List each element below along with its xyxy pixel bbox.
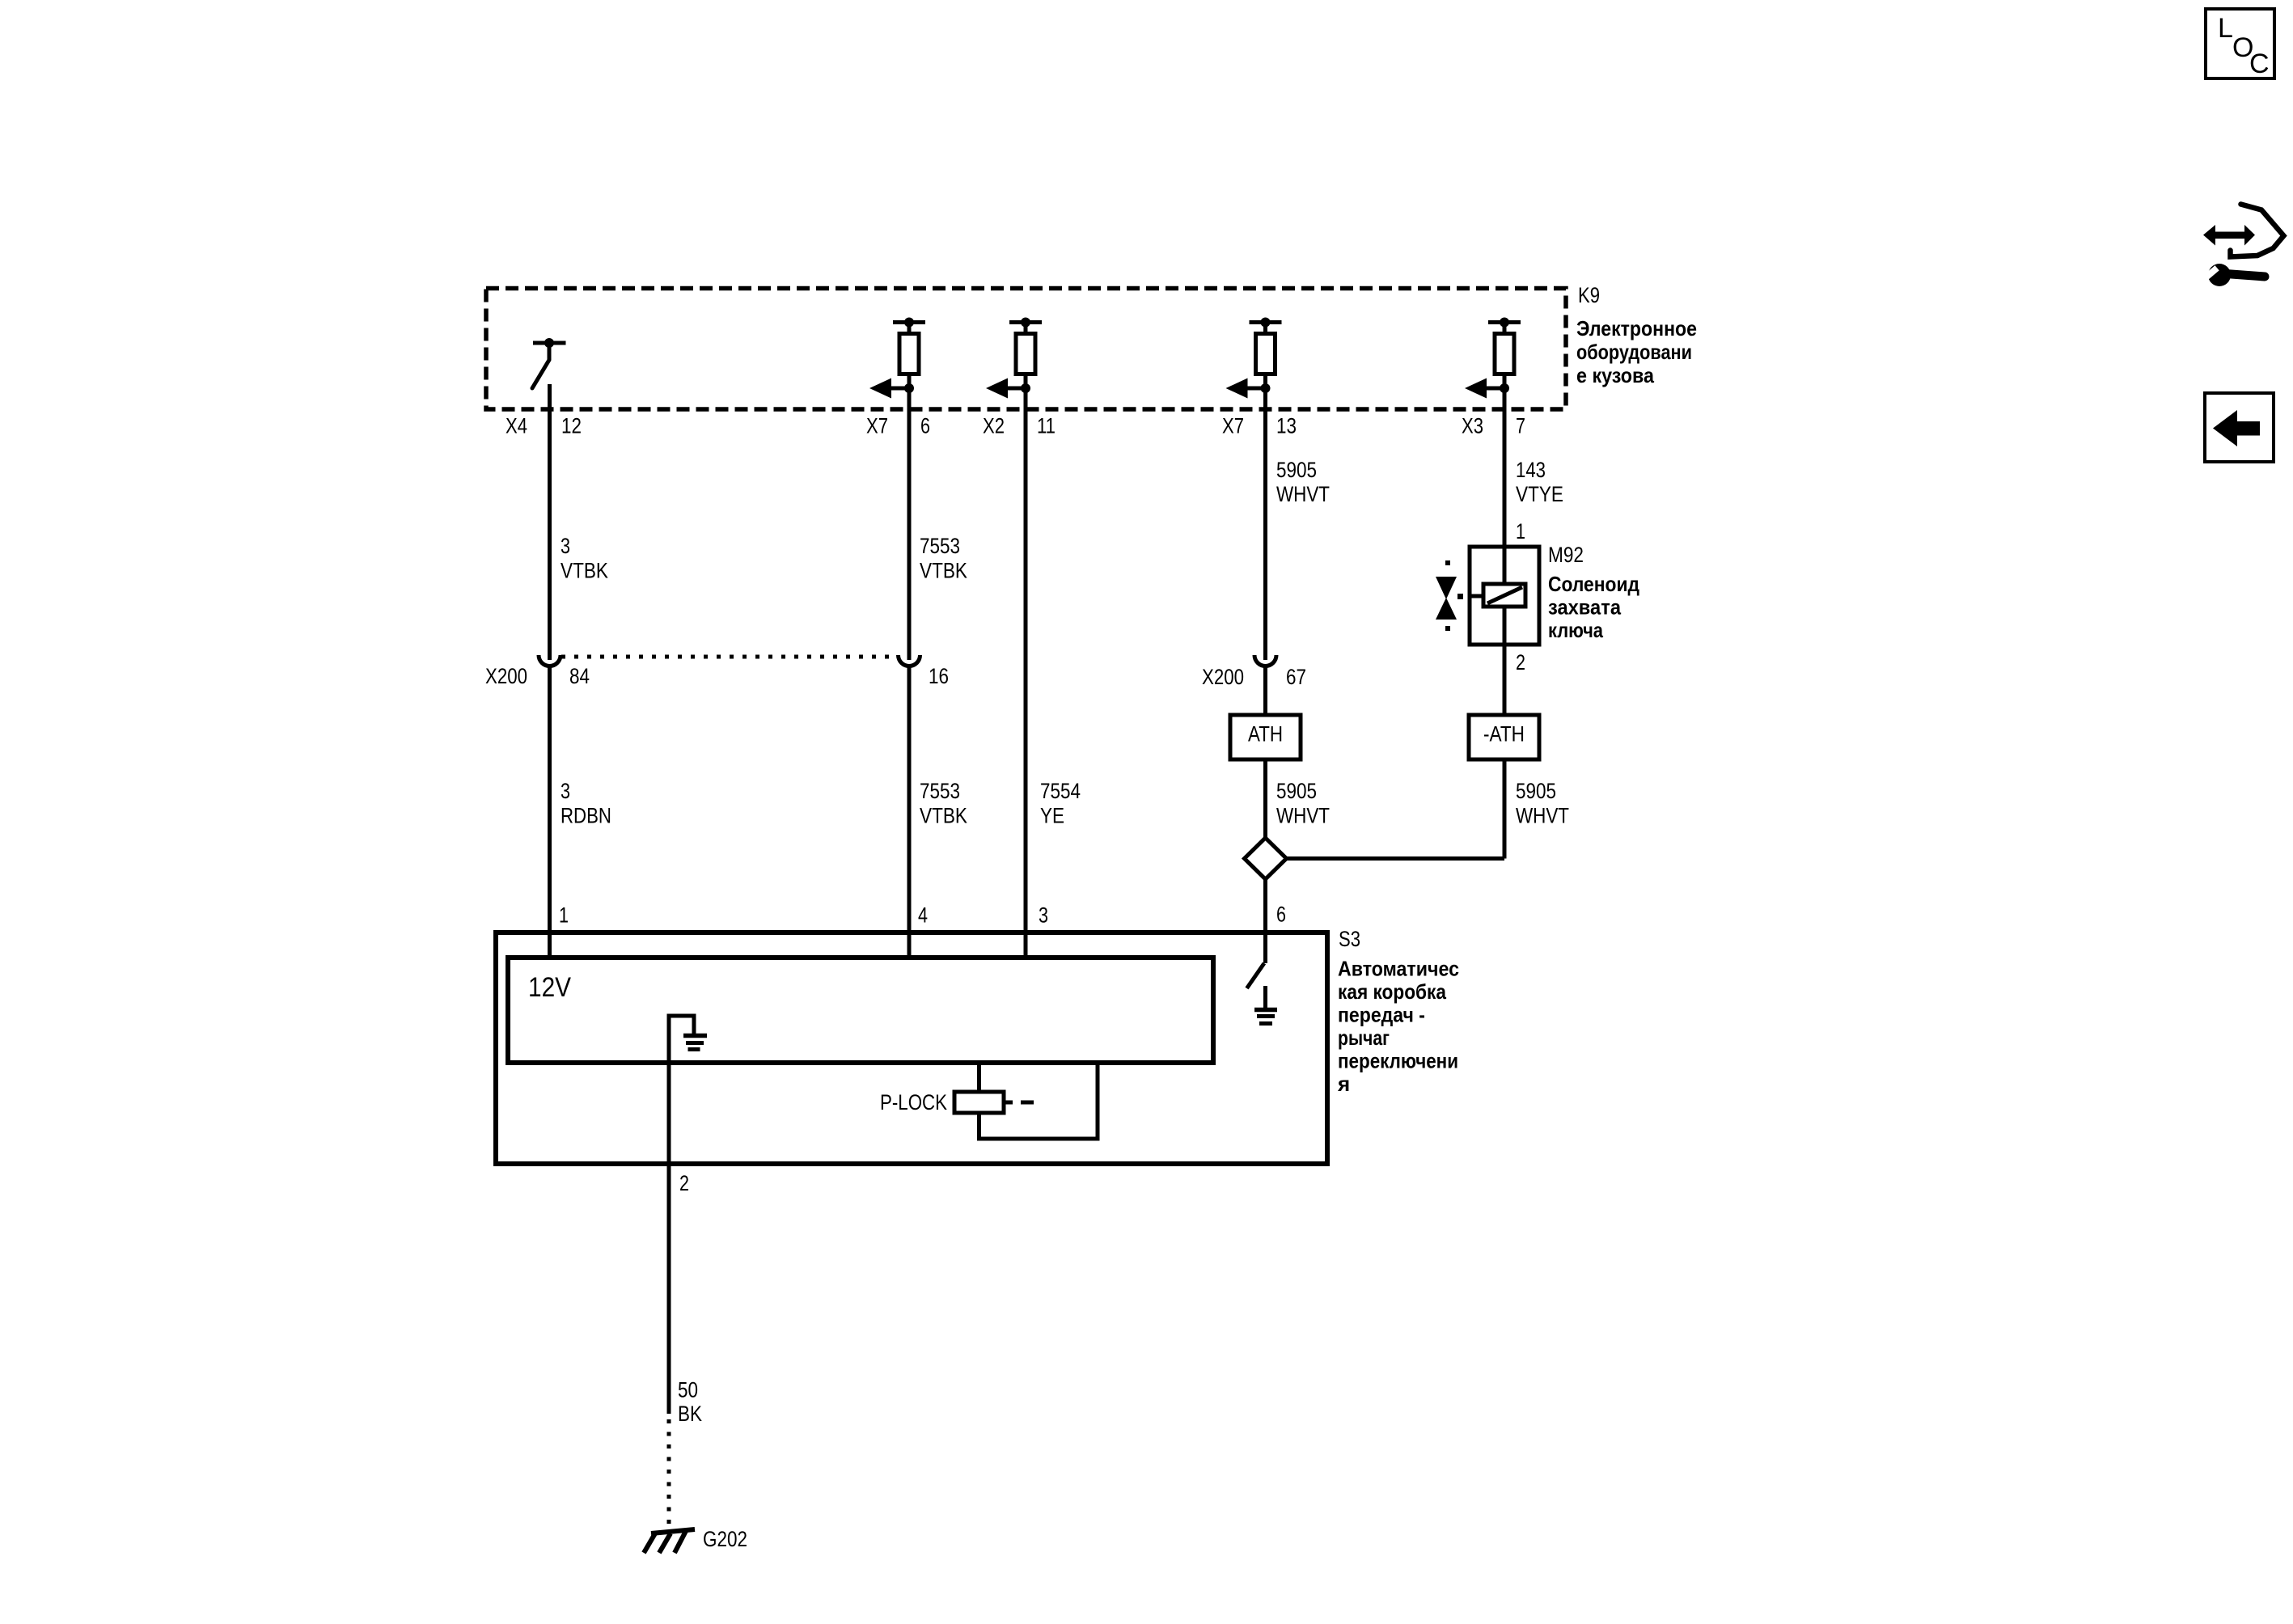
svg-text:X200: X200	[485, 664, 527, 688]
M92 coil diagonal	[1487, 587, 1522, 603]
svg-text:S3: S3	[1339, 927, 1360, 951]
svg-text:X7: X7	[866, 414, 888, 438]
M92 left stub	[1470, 594, 1483, 598]
LOC reference box	[2206, 9, 2274, 78]
svg-text:X3: X3	[1462, 414, 1483, 438]
svg-text:11: 11	[1037, 414, 1056, 438]
svg-text:BK: BK	[678, 1402, 702, 1426]
svg-text:Автоматичес: Автоматичес	[1338, 957, 1459, 981]
svg-text:12: 12	[561, 414, 582, 438]
svg-text:X7: X7	[1222, 414, 1244, 438]
svg-text:3: 3	[561, 534, 570, 558]
svg-text:143: 143	[1516, 458, 1546, 482]
resistor element K9 pin X7-13	[1226, 318, 1282, 399]
svg-text:VTBK: VTBK	[561, 559, 608, 583]
left arrow nav glyph	[2213, 410, 2260, 446]
svg-text:ATH: ATH	[1248, 722, 1283, 746]
wire circuit 3 VTBK (X4-12 to X200-84)	[548, 384, 552, 660]
svg-text:7554: 7554	[1040, 779, 1081, 803]
ground G202 symbol	[644, 1529, 695, 1553]
svg-text:67: 67	[1286, 665, 1306, 689]
svg-text:12V: 12V	[528, 972, 571, 1003]
connector X200 pin 67	[1254, 655, 1276, 666]
shift cable service icon	[2203, 205, 2284, 287]
M92 solenoid coil element	[1483, 584, 1525, 607]
S3 12V bus inner box	[508, 958, 1213, 1063]
svg-text:13: 13	[1276, 414, 1297, 438]
wire circuit 143 VTYE (X3-7 to M92 pin 1)	[1503, 374, 1507, 547]
wire circuit 7554 YE (X2-11 to S3 pin 3)	[1024, 374, 1028, 960]
wire circuit 3 RDBN (X200-84 to S3 pin 1)	[548, 666, 552, 961]
svg-text:кая коробка: кая коробка	[1338, 979, 1446, 1004]
switch contact in K9 (pin X4-12)	[532, 338, 566, 388]
S3 internal ground symbol	[669, 1016, 707, 1063]
svg-text:84: 84	[569, 664, 590, 688]
left arrow nav box	[2205, 393, 2274, 462]
resistor element K9 pin X3-7	[1465, 318, 1521, 399]
svg-text:16: 16	[929, 664, 949, 688]
svg-text:6: 6	[1276, 903, 1286, 927]
solenoid M92 box	[1470, 547, 1539, 645]
svg-text:X4: X4	[506, 414, 527, 438]
wire circuit 5905 WHVT (X7-13 to X200-67)	[1263, 374, 1267, 660]
svg-text:L: L	[2218, 13, 2233, 44]
M92 internal wire pin1 side	[1503, 547, 1507, 584]
svg-text:M92: M92	[1548, 543, 1584, 567]
junction diamond splice	[1245, 838, 1287, 879]
svg-text:оборудовани: оборудовани	[1576, 340, 1692, 364]
dotted connector tie line X200	[561, 655, 898, 659]
M92 mechanical key link symbol	[1436, 560, 1463, 631]
svg-text:3: 3	[561, 779, 570, 803]
svg-text:C: C	[2249, 49, 2270, 79]
svg-text:2: 2	[1516, 650, 1525, 675]
wire circuit 7553 VTBK (X7-6 to X200-16)	[907, 374, 912, 660]
ATH splice box	[1230, 715, 1301, 759]
S3 gear selector lever outer box	[496, 933, 1327, 1164]
svg-text:5905: 5905	[1516, 779, 1556, 803]
svg-text:K9: K9	[1578, 283, 1600, 307]
svg-text:я: я	[1337, 1072, 1350, 1096]
wire circuit 7553 VTBK (X200-16 to S3 pin 4)	[907, 666, 912, 961]
wire M92 pin 2 to -ATH	[1503, 645, 1507, 715]
resistor element K9 pin X7-6	[869, 318, 925, 399]
svg-text:VTBK: VTBK	[920, 559, 967, 583]
svg-text:RDBN: RDBN	[561, 804, 611, 828]
svg-text:-ATH: -ATH	[1483, 722, 1525, 746]
svg-text:5905: 5905	[1276, 779, 1317, 803]
svg-text:Электронное: Электронное	[1576, 316, 1697, 340]
M92 internal wire pin2 side	[1503, 607, 1507, 645]
wire S3 pin 2 down	[667, 1063, 671, 1414]
K9 electronic body equipment dashed box	[486, 289, 1566, 410]
svg-text:7553: 7553	[920, 534, 960, 558]
svg-text:передач -: передач -	[1338, 1003, 1425, 1027]
wire circuit 50 BK dotted to ground	[667, 1419, 671, 1531]
svg-text:ключа: ключа	[1548, 618, 1603, 642]
svg-text:WHVT: WHVT	[1516, 804, 1569, 828]
svg-text:5905: 5905	[1276, 458, 1317, 482]
connector X200 pin 84	[539, 655, 561, 666]
wire ATH to junction diamond	[1263, 759, 1267, 839]
svg-text:7553: 7553	[920, 779, 960, 803]
svg-text:VTYE: VTYE	[1516, 482, 1563, 506]
svg-text:6: 6	[920, 414, 930, 438]
svg-text:YE: YE	[1040, 804, 1064, 828]
svg-text:3: 3	[1039, 903, 1048, 928]
svg-text:Соленоид: Соленоид	[1548, 572, 1639, 596]
-ATH splice box	[1469, 715, 1539, 759]
wire diamond to S3 pin 6	[1263, 878, 1267, 963]
svg-text:рычаг: рычаг	[1338, 1026, 1390, 1050]
resistor element K9 pin X2-11	[986, 318, 1042, 399]
wire -ATH to junction	[1503, 759, 1507, 859]
svg-text:4: 4	[918, 903, 928, 928]
svg-text:X200: X200	[1202, 665, 1244, 689]
svg-text:2: 2	[679, 1171, 689, 1195]
wire X200-67 to ATH	[1263, 666, 1267, 716]
svg-text:X2: X2	[983, 414, 1005, 438]
P-LOCK switch element	[954, 1063, 1098, 1139]
svg-text:7: 7	[1516, 414, 1525, 438]
horizontal wire 5905 to diamond	[1285, 856, 1504, 861]
connector X200 pin 16	[899, 655, 920, 666]
S3 switch to ground (pin 6)	[1247, 963, 1278, 1024]
LOC letters	[2218, 13, 2270, 79]
svg-text:WHVT: WHVT	[1276, 482, 1330, 506]
svg-text:P-LOCK: P-LOCK	[880, 1090, 947, 1114]
svg-text:WHVT: WHVT	[1276, 804, 1330, 828]
svg-text:G202: G202	[703, 1527, 747, 1551]
svg-text:переключени: переключени	[1338, 1049, 1458, 1073]
svg-text:1: 1	[1516, 519, 1525, 543]
svg-text:захвата: захвата	[1548, 595, 1621, 620]
svg-text:50: 50	[678, 1378, 698, 1402]
svg-text:е кузова: е кузова	[1576, 363, 1654, 387]
svg-text:1: 1	[559, 903, 569, 928]
svg-text:VTBK: VTBK	[920, 804, 967, 828]
